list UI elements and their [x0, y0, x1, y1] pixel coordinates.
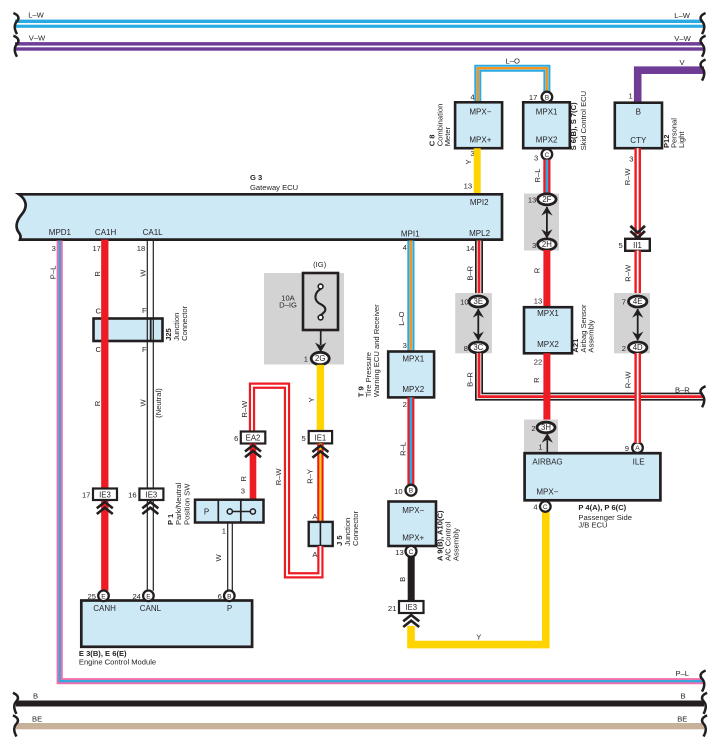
svg-text:Assembly: Assembly [587, 319, 596, 352]
svg-text:MPX+: MPX+ [402, 534, 424, 543]
svg-text:2H: 2H [542, 240, 552, 249]
svg-text:1: 1 [222, 526, 226, 535]
pin 3 circle C of skid ECU [534, 149, 552, 163]
pin 24 circle E CANL [132, 591, 161, 613]
svg-text:R–Y: R–Y [306, 469, 315, 484]
svg-text:IE3: IE3 [146, 491, 158, 500]
svg-text:R: R [93, 271, 102, 277]
svg-text:R–L: R–L [399, 442, 408, 456]
svg-text:(Neutral): (Neutral) [154, 388, 163, 418]
wire R from EA2 to P1 switch [250, 444, 257, 501]
wire Y from C8 MPX+ to gateway MPI2 [474, 148, 481, 193]
svg-text:7: 7 [622, 298, 626, 307]
wire break B right [702, 693, 707, 714]
wire break BE right [702, 715, 707, 736]
svg-text:MPX−: MPX− [469, 108, 491, 117]
svg-text:R–W: R–W [624, 264, 633, 282]
svg-text:V–W: V–W [29, 33, 46, 42]
svg-text:W: W [214, 554, 223, 562]
svg-text:17: 17 [529, 93, 537, 102]
connector IE3 pin 17 [82, 489, 117, 501]
component P12 Personal Light [615, 103, 662, 149]
svg-text:S 6(B), S 7(C): S 6(B), S 7(C) [569, 102, 578, 151]
wire W from P1 to ECM P [228, 523, 233, 591]
svg-text:4: 4 [533, 502, 537, 511]
svg-text:1: 1 [538, 443, 542, 452]
wire break V right [701, 60, 706, 81]
wire R-Y from IE1 to J5 [317, 443, 323, 522]
svg-text:Connector: Connector [351, 510, 360, 546]
wire B from A/C to IE3 [408, 557, 415, 602]
svg-text:13: 13 [528, 196, 536, 205]
connector oval 2G pin 1 [304, 352, 329, 364]
svg-text:BE: BE [32, 715, 42, 724]
svg-text:V–W: V–W [674, 34, 691, 43]
svg-text:B: B [398, 577, 407, 582]
wire bus L-W [15, 20, 703, 28]
wire R-W from II1 to 4E [634, 251, 641, 298]
svg-text:B: B [681, 692, 686, 701]
component P1 Park/Neutral Position SW [195, 500, 264, 523]
svg-text:22: 22 [534, 357, 542, 366]
svg-text:4E: 4E [633, 297, 643, 306]
component T9 Tire Pressure Warning ECU [388, 352, 434, 398]
svg-text:6: 6 [218, 592, 222, 601]
connector chevron above II1 [630, 226, 645, 238]
label C8 Combination Meter [428, 104, 453, 147]
component G3 Gateway ECU [17, 194, 502, 239]
svg-text:Warning ECU and Receiver: Warning ECU and Receiver [372, 304, 381, 397]
label J5 Junction Connector [335, 510, 360, 546]
svg-text:2F: 2F [542, 195, 551, 204]
svg-text:P–L: P–L [49, 266, 58, 280]
svg-text:MPX−: MPX− [402, 506, 424, 515]
svg-text:Connector: Connector [180, 305, 189, 341]
svg-text:9: 9 [625, 444, 629, 453]
wire break L-W right [701, 13, 706, 34]
svg-text:3: 3 [241, 487, 245, 496]
svg-text:3: 3 [629, 154, 633, 163]
pin 13 circle C of A/C [395, 546, 416, 557]
svg-text:D–IG: D–IG [279, 301, 297, 310]
svg-text:MPX1: MPX1 [537, 309, 559, 318]
svg-text:B: B [636, 108, 641, 117]
label P12 Personal Light [662, 118, 686, 148]
svg-text:EA2: EA2 [246, 434, 261, 443]
label S6 S7 Skid Control ECU [569, 91, 588, 151]
wire break P-L right [701, 671, 706, 692]
svg-text:B: B [33, 692, 38, 701]
svg-text:2: 2 [622, 344, 626, 353]
svg-text:MPX−: MPX− [536, 488, 558, 497]
svg-text:R–W: R–W [274, 468, 283, 486]
svg-text:CTY: CTY [630, 136, 647, 145]
connector IE3 pin 21 [388, 601, 424, 613]
svg-text:18: 18 [137, 244, 145, 253]
connector chevron below EA2 [245, 445, 261, 457]
svg-text:10: 10 [394, 487, 402, 496]
connector chevron below IE1 [312, 446, 328, 458]
svg-text:2: 2 [531, 424, 535, 433]
svg-text:Skid Control ECU: Skid Control ECU [579, 91, 588, 151]
svg-text:13: 13 [464, 181, 472, 190]
svg-text:10: 10 [460, 298, 468, 307]
fuse 10A D-IG block [264, 260, 344, 365]
wire R-W from 4D to circle A [634, 353, 641, 443]
pin 25 circle E CANH [88, 591, 117, 613]
svg-text:Gateway ECU: Gateway ECU [250, 183, 298, 192]
svg-text:5: 5 [301, 434, 305, 443]
svg-text:C: C [545, 152, 550, 159]
pin 10 circle B of A/C [394, 485, 416, 496]
svg-text:MPX2: MPX2 [402, 385, 424, 394]
svg-text:25: 25 [88, 592, 96, 601]
svg-text:R: R [532, 377, 541, 383]
svg-text:1: 1 [628, 92, 632, 101]
wire break V-W left [13, 36, 18, 57]
svg-text:MPX1: MPX1 [536, 108, 558, 117]
label E3(B) E6(E) Engine Control Module [79, 649, 156, 667]
svg-text:3E: 3E [474, 297, 484, 306]
svg-text:F: F [142, 345, 147, 354]
svg-text:21: 21 [388, 604, 396, 613]
svg-text:IE3: IE3 [99, 491, 111, 500]
svg-text:CANH: CANH [93, 604, 116, 613]
wire R-L from skid C to 2F [543, 160, 550, 195]
svg-text:Position SW: Position SW [183, 483, 192, 525]
svg-text:E: E [146, 593, 151, 600]
wire Y from 2G to IE1 [317, 365, 324, 432]
svg-text:MPX+: MPX+ [469, 136, 491, 145]
svg-text:1: 1 [304, 354, 308, 363]
svg-text:E: E [101, 593, 106, 600]
label P4(A) P6(C) Passenger Side J/B ECU [578, 503, 632, 530]
svg-text:E 3(B), E 6(E): E 3(B), E 6(E) [79, 649, 127, 658]
svg-text:R–W: R–W [240, 400, 249, 418]
svg-text:MPI2: MPI2 [470, 198, 489, 207]
label P1 Park/Neutral Position SW [166, 482, 191, 525]
svg-text:Assembly: Assembly [451, 528, 460, 561]
svg-text:L–O: L–O [397, 311, 406, 325]
svg-text:Y: Y [464, 159, 473, 164]
wire bus B [16, 701, 704, 707]
svg-text:13: 13 [395, 548, 403, 557]
wire B-R from 3C to right edge [479, 353, 703, 397]
svg-text:P–L: P–L [676, 669, 690, 678]
pin 6 circle B P [218, 591, 235, 613]
svg-text:BE: BE [677, 715, 687, 724]
label T9 Tire Pressure Warning ECU and Receiver [356, 304, 381, 397]
svg-text:J/B ECU: J/B ECU [578, 521, 607, 530]
svg-text:L–W: L–W [28, 11, 44, 20]
label A9(B) A10(C) A/C Control Assembly [436, 510, 461, 561]
wire break L-W left [13, 13, 18, 34]
svg-text:ILE: ILE [633, 458, 645, 467]
svg-text:Meter: Meter [443, 126, 452, 146]
wire L-O from gateway MPI1 to T9 [407, 241, 414, 352]
svg-text:17: 17 [92, 244, 100, 253]
label A21 Airbag Sensor Assembly [571, 304, 596, 353]
svg-text:B: B [409, 488, 414, 495]
svg-text:A: A [635, 445, 640, 452]
component J25 Junction Connector [94, 319, 163, 342]
svg-text:CA1L: CA1L [143, 228, 164, 237]
svg-text:C: C [96, 345, 102, 354]
pin 9 circle A of J/B [625, 442, 643, 453]
svg-text:4: 4 [470, 92, 474, 101]
svg-text:B–R: B–R [466, 265, 475, 280]
svg-text:2G: 2G [315, 354, 325, 363]
connector IE3 pin 16 [128, 489, 163, 501]
svg-text:F: F [142, 306, 147, 315]
svg-text:5: 5 [618, 241, 622, 250]
connector chevron below IE3 16 [142, 502, 158, 514]
connector II1 pin 5 [618, 239, 649, 251]
svg-text:MPD1: MPD1 [49, 228, 72, 237]
svg-text:17: 17 [82, 491, 90, 500]
svg-text:II1: II1 [633, 241, 642, 250]
svg-text:MPL2: MPL2 [469, 229, 490, 238]
wire R-L from T9 to A/C [407, 397, 414, 485]
svg-text:Y: Y [476, 632, 481, 641]
svg-text:R: R [239, 476, 248, 482]
svg-text:Y: Y [307, 397, 316, 402]
connector 3E 3C block [455, 293, 492, 353]
svg-text:(IG): (IG) [313, 260, 327, 269]
svg-text:3: 3 [52, 244, 56, 253]
wire bus V-W [15, 42, 703, 51]
svg-text:B–R: B–R [466, 372, 475, 387]
svg-text:IE1: IE1 [315, 434, 327, 443]
pin 17 circle B of skid ECU [529, 92, 552, 103]
connector EA2 pin 6 [234, 432, 265, 444]
svg-text:4: 4 [403, 243, 407, 252]
svg-text:W: W [138, 399, 147, 407]
svg-text:MPI1: MPI1 [401, 229, 420, 238]
svg-text:MPX1: MPX1 [402, 354, 424, 363]
svg-text:6: 6 [234, 434, 238, 443]
wire break BE left [13, 715, 18, 736]
svg-text:C: C [543, 504, 548, 511]
connector chevron below IE3 17 [97, 502, 113, 514]
svg-text:Light: Light [677, 131, 686, 148]
svg-text:R–W: R–W [624, 371, 633, 389]
svg-text:8: 8 [464, 344, 468, 353]
svg-text:P 4(A), P 6(C): P 4(A), P 6(C) [578, 503, 626, 512]
pin 4 circle C of J/B [533, 501, 550, 512]
svg-text:CANL: CANL [140, 604, 162, 613]
label J25 Junction Connector [164, 305, 189, 341]
svg-text:MPX2: MPX2 [537, 340, 559, 349]
component S6/S7 Skid Control ECU [523, 102, 570, 148]
svg-text:P: P [227, 604, 232, 613]
svg-text:AIRBAG: AIRBAG [532, 458, 562, 467]
svg-text:G 3: G 3 [250, 173, 262, 182]
svg-text:L–W: L–W [674, 11, 690, 20]
svg-text:B: B [227, 593, 232, 600]
svg-text:3: 3 [532, 241, 536, 250]
svg-text:W: W [138, 269, 147, 277]
connector 2F 2H block [524, 194, 559, 251]
svg-text:R: R [93, 400, 102, 406]
wire V to P12 [638, 70, 704, 104]
svg-text:R–W: R–W [623, 168, 632, 186]
component J5 Junction Connector [309, 522, 333, 546]
wire bus BE [16, 723, 704, 729]
component A9/A10 A/C Control Assembly [389, 502, 437, 547]
component A21 Airbag Sensor Assembly [524, 307, 572, 353]
svg-text:3: 3 [534, 154, 538, 163]
wire break B-R right [701, 386, 706, 407]
svg-text:C: C [96, 306, 102, 315]
svg-text:3H: 3H [541, 423, 551, 432]
component P4/P6 Passenger Side J/B ECU [525, 453, 661, 500]
svg-text:14: 14 [466, 244, 474, 253]
svg-text:3C: 3C [473, 343, 483, 352]
wire R CA1H to ECM CANH [101, 240, 108, 591]
wire R-W loop J5 to EA2 [252, 386, 320, 576]
component E3/E6 Engine Control Module [81, 601, 252, 647]
svg-text:C: C [409, 549, 414, 556]
connector chevron below IE3 21 [403, 615, 419, 627]
svg-text:3: 3 [403, 341, 407, 350]
svg-text:B: B [545, 95, 550, 102]
wire R from 2H to A21 [543, 250, 550, 308]
wire B-R from MPL2 to 3E [475, 241, 483, 297]
wire Y from IE3 21 to J/B pin 4 [411, 512, 546, 645]
svg-text:13: 13 [534, 297, 542, 306]
component C8 Combination Meter [455, 102, 502, 148]
svg-text:4D: 4D [633, 343, 643, 352]
svg-text:2: 2 [403, 400, 407, 409]
wire R-W from CTY to II1 [634, 148, 641, 239]
wire P-L from MPD1 to bottom right [60, 241, 703, 682]
svg-text:MPX2: MPX2 [536, 136, 558, 145]
svg-text:L–O: L–O [506, 56, 520, 65]
svg-text:R–L: R–L [533, 169, 542, 183]
svg-text:Engine Control Module: Engine Control Module [79, 658, 156, 667]
svg-text:P: P [204, 507, 209, 516]
connector 3H block [524, 420, 558, 453]
wire W CA1L to ECM CANL [147, 241, 153, 591]
svg-text:B–R: B–R [675, 386, 690, 395]
svg-text:IE3: IE3 [405, 603, 417, 612]
svg-text:24: 24 [132, 592, 140, 601]
label G3 Gateway ECU [250, 173, 298, 192]
wire L-O loop C8 to skid ECU [478, 68, 547, 103]
wire R from A21 to 3H [543, 353, 550, 423]
wire break B left [13, 693, 18, 714]
wire break V-W right [701, 36, 706, 57]
svg-text:16: 16 [128, 491, 136, 500]
svg-text:R: R [533, 267, 542, 273]
connector 4E 4D block [614, 293, 650, 353]
svg-text:CA1H: CA1H [95, 228, 117, 237]
connector IE1 pin 5 [301, 431, 332, 443]
